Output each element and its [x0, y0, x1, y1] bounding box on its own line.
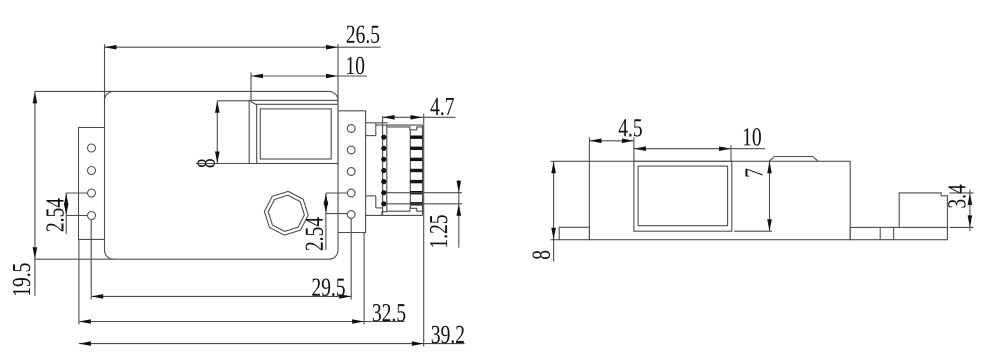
dimension 1.25 line — [458, 180, 460, 248]
dimension 26.5/10 shared extension line right — [337, 44, 339, 100]
dimension 10 extension line left — [250, 73, 252, 101]
PCB tail bar — [850, 227, 947, 239]
right tab pin hole 2 — [347, 146, 355, 154]
connector pin 6 wire dot — [381, 190, 386, 195]
dim 8 bottom arrow — [215, 152, 220, 164]
left mounting tab — [79, 128, 105, 240]
connector pin 6 contact bar — [410, 191, 422, 194]
dim 4.7 right arrow — [411, 115, 423, 120]
connector bottom-left step — [382, 212, 387, 216]
dimension text 4.7 — [430, 98, 453, 115]
connector bottom latch wing — [366, 195, 376, 197]
dim 4.7 left arrow — [383, 115, 395, 120]
side connector block — [899, 193, 947, 228]
connector pin 4 wire dot — [381, 168, 386, 173]
dim 32.5 left arrow — [79, 319, 91, 324]
dimension 3.4 line — [969, 190, 971, 232]
dim 1.25 lower arrow — [457, 204, 462, 216]
right tab pin hole 1 — [347, 125, 355, 133]
dimension 19.5 line — [34, 91, 36, 295]
left tab pin hole 3 — [88, 189, 96, 197]
dimension 26.5 extension line left — [104, 44, 106, 100]
dimension 29.5 line — [91, 295, 351, 297]
dimension text 1.25 — [430, 215, 448, 247]
dim 32.5 right arrow — [352, 319, 364, 324]
dim 3.4 top arrow — [968, 193, 973, 205]
dim 3.4 bottom arrow — [968, 215, 973, 227]
left tab pin hole 2 — [88, 167, 96, 175]
dim 19.5 top extension — [35, 90, 114, 92]
dimension 10 side line — [634, 148, 765, 150]
connector pin 3 wire dot — [381, 157, 386, 162]
dim 8 top arrow — [215, 101, 220, 113]
dimension 7 line — [769, 161, 771, 231]
connector pin 1 contact bar — [410, 136, 422, 139]
right tab pin hole 4 — [347, 189, 355, 197]
connector housing outline — [376, 124, 423, 126]
dim 8S bottom extension — [551, 239, 560, 241]
dimension text 39.2 — [432, 326, 464, 344]
dimension text 7 — [745, 169, 762, 177]
dim 10S right arrow — [719, 146, 731, 151]
dim 19.5 top arrow — [33, 91, 38, 103]
dimension text 10 — [347, 57, 364, 75]
window corner chamfer — [250, 101, 257, 105]
side view left foot — [559, 227, 589, 239]
connector pin 4 contact bar — [410, 169, 422, 172]
dim 4.5 left extension — [588, 137, 590, 161]
dim 19.5 bottom arrow — [33, 247, 38, 259]
left tab pin hole 4 — [88, 212, 96, 220]
dim 10 left arrow — [251, 74, 263, 79]
dim 1.25 top extension — [386, 192, 462, 194]
dim 2.54L top extension — [66, 192, 87, 194]
dimension 10 line — [251, 75, 367, 77]
connector contact wall — [409, 130, 411, 209]
dim 29.5 right arrow — [339, 294, 351, 299]
dimension 4.5 line — [589, 140, 634, 142]
dim 2.54L top arrow — [64, 193, 69, 205]
IR window outer frame (top view) — [249, 100, 338, 163]
dimension 39.2 line — [79, 343, 465, 345]
connector pin 5 wire dot — [381, 179, 386, 184]
dim 4.5 right extension — [633, 137, 635, 161]
PCB tail divider 2 — [893, 227, 895, 239]
dimension text 4.5 — [619, 119, 642, 136]
dim 29.5 right extension — [350, 219, 352, 300]
dimension 26.5 line — [105, 46, 381, 48]
dimension text 8 — [197, 159, 215, 167]
dim 26.5 left arrow — [105, 45, 117, 50]
dimension 4.7 line — [383, 116, 456, 118]
dim 7 bottom extension — [734, 230, 772, 232]
dimension text 26.5 — [347, 26, 380, 44]
dim 4.5 left arrow — [589, 139, 601, 144]
side view top bump — [769, 157, 818, 162]
dimension text 19.5 — [13, 263, 31, 295]
IR window inner frame (top view) — [260, 109, 331, 159]
IR window inner (side view) — [638, 166, 728, 226]
dim 7 top arrow — [767, 161, 772, 173]
IR window mid frame — [257, 104, 338, 163]
connector pin 7 contact bar — [410, 202, 422, 205]
connector pin 5 contact bar — [410, 180, 422, 183]
octagon vent outer — [264, 191, 308, 235]
connector pin 2 wire dot — [381, 146, 386, 151]
dim 2.54L bottom arrow — [64, 204, 69, 216]
PCB tail divider 1 — [879, 227, 881, 239]
dim 32.5 right extension — [363, 233, 365, 325]
dim 32.5 left extension — [78, 239, 80, 324]
dim 3.4 bottom extension — [950, 226, 974, 228]
dim 39.2 right arrow — [412, 341, 424, 346]
dim 2.54L bottom extension — [66, 215, 87, 217]
dimension text 32.5 — [373, 304, 405, 322]
connector bottom notch — [387, 208, 423, 211]
dim 19.5 bottom extension — [35, 258, 114, 260]
dim 2.54R top extension — [326, 192, 347, 194]
dim 39.2 right extension — [423, 114, 425, 347]
dim 39.2 left arrow — [79, 341, 91, 346]
dimension text 8 side — [533, 251, 551, 259]
dim 4.5 right arrow — [622, 139, 634, 144]
left tab pin hole 1 — [88, 144, 96, 152]
dim 8S top extension — [551, 160, 590, 162]
connector pin 1 wire dot — [381, 135, 386, 140]
dim 7 bottom arrow — [767, 219, 772, 231]
dim 10S right extension — [730, 145, 732, 161]
dim 1.25 bottom extension — [386, 203, 462, 205]
dim 3.4 top extension — [950, 192, 974, 194]
sensor body outline (side view) — [589, 161, 850, 239]
IR window outer (side view) — [634, 161, 732, 231]
connector pin 7 wire dot — [381, 201, 386, 206]
dim 8 bottom extension — [196, 163, 249, 165]
dimension 2.54 left line — [65, 193, 67, 234]
dim 8S top arrow — [551, 161, 556, 173]
dimension text 2.54 left — [46, 198, 64, 231]
sensor body outline (top view) — [105, 91, 339, 259]
dim 26.5 right arrow — [326, 45, 338, 50]
dim 10S left arrow — [634, 146, 646, 151]
dimension text 10 side — [744, 128, 761, 146]
dimension text 2.54 right — [306, 217, 324, 250]
dim 10 right arrow — [326, 74, 338, 79]
right mounting tab — [338, 111, 366, 233]
octagon vent inner — [268, 195, 304, 231]
dim 8 top extension — [217, 100, 249, 102]
dim 2.54R bottom extension — [326, 213, 347, 215]
right tab pin hole 5 — [347, 211, 355, 219]
dim 2.54R top arrow — [324, 193, 329, 205]
dim 8S bottom arrow — [551, 228, 556, 240]
connector pin 3 contact bar — [410, 158, 422, 161]
dimension 8 side line — [553, 161, 555, 261]
dimension 2.54 right line — [325, 193, 327, 250]
dimension 32.5 line — [79, 321, 405, 323]
dim 29.5 left extension — [90, 220, 92, 300]
connector top latch wing — [366, 122, 388, 124]
dim 29.5 left arrow — [91, 294, 103, 299]
connector pin 2 contact bar — [410, 147, 422, 150]
dimension 8 line — [216, 101, 218, 164]
connector top notch — [387, 127, 423, 130]
dim 2.54R bottom arrow — [324, 202, 329, 214]
right tab pin hole 3 — [347, 168, 355, 176]
dimension text 29.5 — [312, 278, 345, 296]
dimension text 3.4 — [948, 185, 966, 208]
dim 1.25 upper arrow — [457, 181, 462, 193]
